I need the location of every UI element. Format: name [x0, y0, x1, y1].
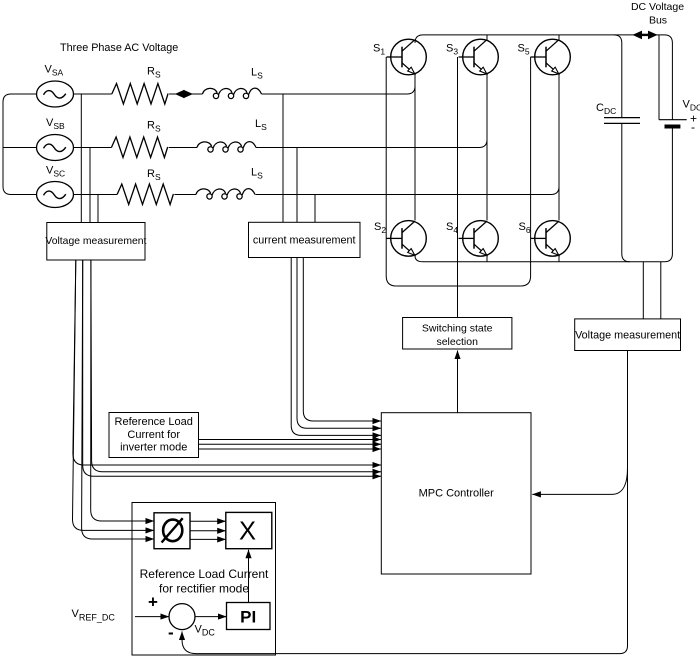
- arrow: VREF_DC into summing junction: [135, 616, 169, 618]
- wire: phase B tap to current measurement: [296, 148, 298, 223]
- block: phase detector: [154, 513, 190, 549]
- wire: phase A tap to voltage measurement: [80, 94, 82, 223]
- wire: DC+ top rail: [415, 35, 672, 120]
- inductor LS phase A: [203, 88, 262, 99]
- svg-text:Voltage measurement: Voltage measurement: [45, 236, 146, 247]
- svg-text:Three Phase AC Voltage: Three Phase AC Voltage: [60, 42, 178, 54]
- box: current measurement: [249, 222, 361, 257]
- wire: phase detector to multiplier 2: [190, 530, 226, 532]
- inductor LS phase C: [196, 189, 255, 200]
- block: multiplier X: [226, 512, 272, 548]
- box: PI controller: [227, 603, 271, 630]
- wire: DC- bottom rail: [415, 256, 664, 262]
- transistor S1: [387, 39, 427, 75]
- wire: voltage measurement to phase detector 3: [82, 260, 154, 539]
- wire: S6 emitter stub: [558, 256, 560, 262]
- wire: phase B source to resistor: [74, 147, 112, 149]
- wire: neutral bracket joining three sources: [3, 94, 37, 195]
- wire: battery positive lead: [658, 35, 660, 120]
- source VSC: [37, 182, 74, 208]
- svg-text:Current for: Current for: [127, 429, 180, 441]
- wire: voltage measurement to MPC 2: [91, 260, 381, 472]
- resistor RS phase A: [112, 84, 168, 105]
- wire: phase A tap to current measurement: [282, 94, 284, 222]
- wire: DC voltage measurement branch to MPC: [532, 468, 627, 494]
- svg-text:-: -: [168, 623, 174, 642]
- source VSA: [37, 81, 74, 107]
- svg-text:+: +: [148, 593, 158, 612]
- DC bus double arrow: [632, 31, 657, 40]
- wire: voltage measurement to phase detector 2: [73, 260, 155, 530]
- svg-text:DC Voltage: DC Voltage: [631, 1, 684, 13]
- inductor LS phase B: [197, 142, 256, 153]
- box: MPC Controller: [381, 413, 531, 574]
- transistor S4: [459, 221, 499, 257]
- wire: current measurement to MPC 2: [297, 258, 381, 428]
- wire: S4 emitter stub: [486, 256, 488, 262]
- bridge leg B wire: [486, 75, 488, 221]
- wire: phase C tap to voltage measurement: [97, 195, 99, 223]
- box: Reference Load Current for inverter mode: [109, 413, 199, 458]
- svg-text:Reference Load: Reference Load: [115, 416, 193, 428]
- wire: DC voltage measurement down and feedback to summing junction: [182, 351, 628, 654]
- transistor S6: [531, 221, 571, 257]
- box: AC voltage measurement: [45, 223, 146, 261]
- wire: phase B resistor to inductor: [169, 147, 197, 149]
- bridge leg A wire: [414, 75, 416, 221]
- arrow: summing junction to PI: [195, 616, 227, 618]
- wire: phase A resistor to inductor: [169, 93, 202, 95]
- resistor RS phase C: [117, 184, 173, 205]
- wire: voltage measurement to MPC 1: [73, 260, 381, 465]
- wire: current measurement to MPC 3: [291, 258, 381, 435]
- battery VDC: [659, 120, 687, 127]
- bidirectional arrow on phase A wire: [175, 90, 193, 99]
- svg-text:Reference Load Current: Reference Load Current: [140, 567, 269, 581]
- transistor S3: [459, 39, 499, 75]
- wire: inverter ref to MPC 3: [199, 448, 382, 450]
- wire: phase A source to resistor: [74, 93, 112, 95]
- wire: base drive bus middle (S3 S4) down to switching box: [457, 57, 459, 318]
- wire: phase A inductor to bridge leg A: [262, 86, 416, 94]
- wire: voltage measurement to phase detector 1: [91, 260, 154, 521]
- wire: capacitor top lead: [614, 35, 622, 118]
- svg-text:PI: PI: [240, 608, 256, 627]
- box: reference load current for rectifier mode outer: [132, 503, 276, 656]
- wire: S3 collector stub: [486, 35, 488, 40]
- svg-text:for rectifier mode: for rectifier mode: [159, 582, 249, 596]
- wire: inverter ref to MPC 1: [199, 439, 382, 441]
- arrow: PI to multiplier: [248, 550, 250, 603]
- wire: base drive horizontal: [396, 285, 520, 287]
- wire: phase B inductor to bridge leg B: [256, 140, 487, 148]
- wire: capacitor bottom lead: [622, 123, 630, 261]
- arrow: MPC to switching state selection: [457, 351, 459, 413]
- wire: base drive bus left (S1 S2): [386, 57, 396, 286]
- wire: phase C resistor to inductor: [174, 194, 196, 196]
- wire: phase C inductor to bridge leg C: [256, 187, 560, 195]
- svg-text:selection: selection: [436, 336, 478, 348]
- svg-text:current measurement: current measurement: [253, 235, 356, 247]
- wire: base drive bus right (S5 S6): [521, 57, 531, 286]
- source VSB: [37, 135, 74, 161]
- capacitor CDC: [604, 118, 640, 124]
- wire: DC bus tap 1 to voltage measurement: [642, 262, 644, 319]
- svg-text:Switching state: Switching state: [422, 323, 493, 335]
- wire: battery negative lead: [664, 126, 672, 262]
- transistor S2: [387, 221, 427, 257]
- wire: current measurement to MPC 1: [303, 258, 381, 421]
- wire: phase C tap to current measurement: [314, 195, 316, 223]
- wire: phase detector to multiplier 3: [190, 538, 226, 540]
- svg-text:X: X: [239, 517, 256, 545]
- bridge leg C wire: [558, 75, 560, 221]
- box: Switching state selection: [403, 318, 512, 350]
- svg-text:-: -: [691, 120, 695, 134]
- wire: phase B tap to voltage measurement: [89, 148, 91, 223]
- svg-text:Bus: Bus: [649, 14, 667, 26]
- wire: inverter ref to MPC 2: [199, 443, 382, 445]
- wire: phase C source to resistor: [74, 194, 118, 196]
- svg-text:Voltage measurement: Voltage measurement: [575, 330, 680, 342]
- box: DC voltage measurement: [575, 319, 681, 351]
- svg-text:MPC Controller: MPC Controller: [419, 488, 495, 500]
- resistor RS phase B: [111, 137, 167, 158]
- wire: voltage measurement to MPC 3: [83, 260, 381, 476]
- wire: S5 collector stub: [558, 35, 560, 40]
- summing junction: [169, 604, 195, 630]
- wire: DC bus tap 2 to voltage measurement: [660, 262, 662, 319]
- wire: phase detector to multiplier 1: [190, 520, 226, 522]
- svg-text:inverter mode: inverter mode: [120, 442, 187, 454]
- label DC Voltage Bus: [631, 1, 684, 26]
- transistor S5: [531, 39, 571, 75]
